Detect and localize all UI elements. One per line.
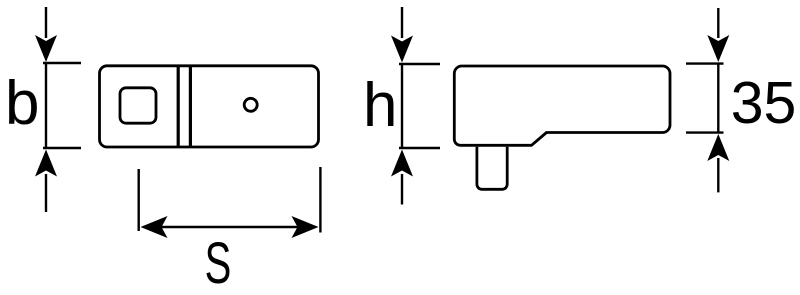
svg-text:35: 35 <box>731 70 797 136</box>
dimension h bottom leader <box>401 174 403 205</box>
dimension b connector line <box>45 63 47 148</box>
collar line 1 <box>177 65 180 148</box>
side view body <box>454 66 670 145</box>
dimension 35 top extension line <box>686 62 724 64</box>
dimension 35 connector line <box>717 64 719 133</box>
dimension h top leader <box>401 7 403 38</box>
dimension S right arrowhead <box>292 216 319 238</box>
svg-text:b: b <box>5 69 39 138</box>
dimension S left extension line <box>137 169 139 231</box>
svg-text:S: S <box>205 231 232 295</box>
dimension S right extension line <box>319 167 321 233</box>
drive tang <box>477 147 507 190</box>
dimension b bottom extension line <box>43 147 81 149</box>
dimension b bottom leader <box>45 174 47 212</box>
dimension b bottom arrowhead <box>35 150 57 177</box>
svg-text:h: h <box>363 71 397 140</box>
dimension h top extension line <box>399 63 440 65</box>
dimension 35 top arrowhead <box>707 35 729 62</box>
square drive hole <box>120 88 156 123</box>
dimension S left arrowhead <box>141 216 168 238</box>
dimension S line <box>160 226 300 228</box>
dimension h top arrowhead <box>391 36 413 63</box>
dimension 35 bottom extension line <box>686 131 724 133</box>
pin hole <box>244 98 257 111</box>
dimension 35 bottom leader <box>717 158 719 192</box>
dimension b top extension line <box>43 62 81 64</box>
dimension 35 bottom arrowhead <box>707 134 729 161</box>
dimension 35 top leader <box>717 8 719 38</box>
dimension h bottom extension line <box>399 147 440 149</box>
dimension b top arrowhead <box>35 35 57 62</box>
front view body <box>100 66 319 147</box>
dimension h connector line <box>401 64 403 148</box>
collar line 2 <box>189 65 192 148</box>
dimension h bottom arrowhead <box>391 150 413 177</box>
dimension b top leader <box>45 7 47 38</box>
